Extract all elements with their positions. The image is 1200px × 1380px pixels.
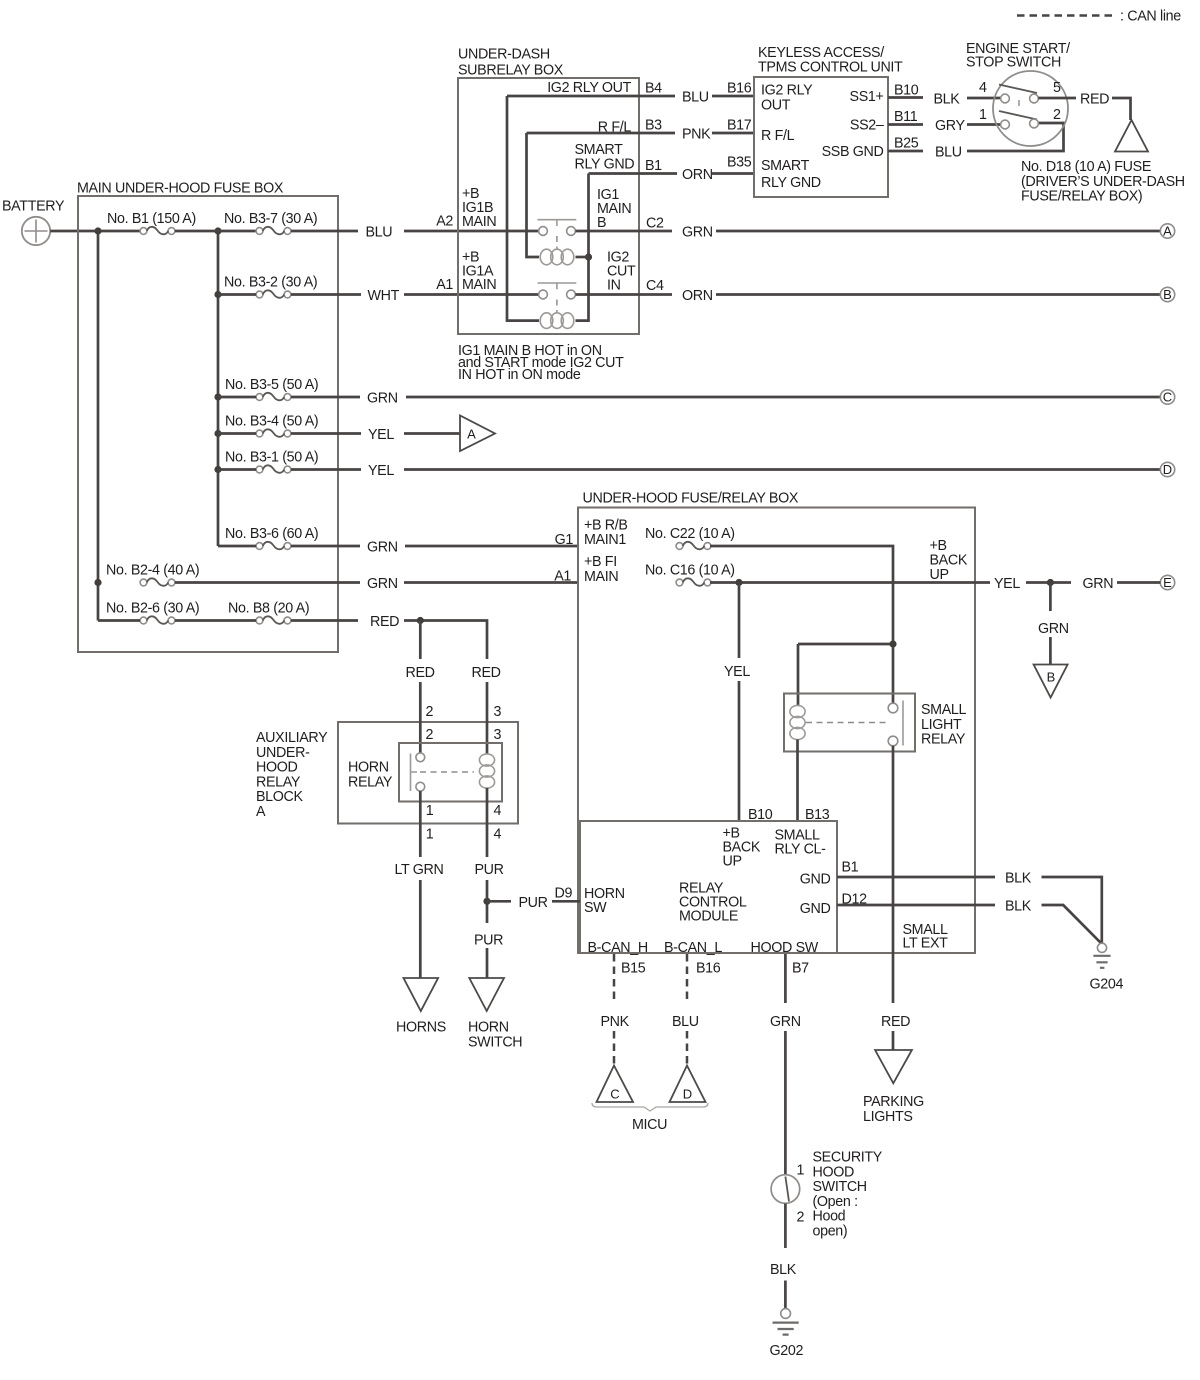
contact horn relay	[411, 753, 475, 791]
svg-text:SMALL: SMALL	[921, 702, 967, 718]
svg-text:RED: RED	[370, 614, 399, 630]
svg-text:ORN: ORN	[682, 288, 713, 304]
svg-text:IG2 RLY: IG2 RLY	[761, 83, 813, 99]
svg-text:FUSE/RELAY BOX): FUSE/RELAY BOX)	[1021, 189, 1142, 205]
svg-text:No. B8 (20 A): No. B8 (20 A)	[228, 601, 309, 617]
wire left bus	[97, 231, 100, 621]
wire BLU row A2	[291, 230, 539, 233]
svg-text:MAIN: MAIN	[584, 569, 618, 585]
svg-text:B: B	[1163, 287, 1172, 302]
wire YEL vertical to B10	[738, 583, 741, 822]
svg-text:RED: RED	[472, 665, 501, 681]
svg-text:PNK: PNK	[682, 127, 711, 143]
svg-text:No. B3-1 (50 A): No. B3-1 (50 A)	[225, 450, 318, 466]
svg-text:GRN: GRN	[682, 225, 713, 241]
svg-text:RED: RED	[406, 665, 435, 681]
svg-text:B13: B13	[805, 807, 830, 823]
svg-text:D: D	[1163, 462, 1172, 477]
svg-text:G204: G204	[1090, 977, 1124, 993]
svg-text:GRN: GRN	[770, 1014, 801, 1030]
svg-text:OUT: OUT	[761, 98, 791, 114]
connector A triangle	[460, 416, 495, 452]
svg-text:D: D	[683, 1087, 692, 1102]
wire SS1+ B10 BLK	[888, 83, 1001, 108]
relay HORN RELAY box	[348, 743, 502, 802]
fuse B3-7 30A	[224, 211, 317, 234]
svg-text:: CAN line: : CAN line	[1120, 9, 1181, 25]
svg-text:No. B3-2 (30 A): No. B3-2 (30 A)	[224, 275, 317, 291]
node horn relay feed junction	[417, 617, 424, 624]
svg-text:2: 2	[797, 1210, 805, 1226]
contact small light relay	[806, 701, 903, 746]
svg-text:BLU: BLU	[366, 225, 393, 241]
svg-text:GND: GND	[800, 901, 831, 917]
svg-text:B: B	[1047, 670, 1056, 685]
svg-text:IN: IN	[607, 278, 621, 294]
connector B triangle	[1034, 665, 1068, 698]
svg-text:1: 1	[979, 107, 987, 123]
wire GRN drop to connector B	[1049, 583, 1052, 665]
svg-text:B4: B4	[645, 81, 662, 97]
svg-text:PUR: PUR	[519, 895, 548, 911]
svg-text:1: 1	[426, 803, 434, 819]
svg-text:HOOD SW: HOOD SW	[751, 940, 819, 956]
MICU bracket	[592, 1103, 708, 1133]
svg-text:B15: B15	[621, 961, 646, 977]
svg-text:No. B3-6 (60 A): No. B3-6 (60 A)	[225, 526, 318, 542]
svg-text:TPMS CONTROL UNIT: TPMS CONTROL UNIT	[758, 60, 903, 76]
svg-text:No. C16 (10 A): No. C16 (10 A)	[645, 563, 735, 579]
UNDER-DASH SUBRELAY BOX	[458, 47, 639, 335]
fuse B3-6 60A	[225, 526, 318, 549]
svg-text:GRN: GRN	[367, 576, 398, 592]
ground G202	[770, 1309, 804, 1359]
svg-text:open): open)	[813, 1224, 848, 1240]
fuse B1 150A	[107, 211, 196, 234]
svg-text:A: A	[256, 804, 266, 820]
svg-text:GRN: GRN	[367, 540, 398, 556]
svg-text:SW: SW	[584, 900, 607, 916]
svg-text:BATTERY: BATTERY	[2, 199, 65, 215]
svg-text:A2: A2	[436, 214, 453, 230]
node relay branch junction	[889, 640, 896, 647]
wire WHT row A1	[218, 293, 539, 296]
svg-text:2: 2	[1053, 107, 1061, 123]
svg-text:No. B3-5 (50 A): No. B3-5 (50 A)	[225, 377, 318, 393]
svg-text:YEL: YEL	[368, 463, 394, 479]
svg-text:RLY GND: RLY GND	[575, 157, 635, 173]
svg-text:G202: G202	[770, 1343, 804, 1359]
svg-text:Hood: Hood	[813, 1209, 846, 1225]
svg-text:GND: GND	[800, 872, 831, 888]
svg-text:HORN: HORN	[348, 760, 389, 776]
svg-text:B17: B17	[727, 118, 752, 134]
svg-text:RELAY: RELAY	[256, 774, 301, 790]
svg-text:BLK: BLK	[1005, 871, 1032, 887]
svg-text:LT GRN: LT GRN	[395, 862, 444, 878]
connector D triangle (MICU)	[670, 1066, 706, 1103]
svg-text:WHT: WHT	[368, 288, 400, 304]
wire horn relay pin 1 LT GRN to HORNS	[395, 791, 444, 978]
wire C4 ORN to connector B	[576, 293, 1161, 296]
wire +B BACK UP out to connector E	[710, 581, 1160, 584]
wire battery to fuse box	[50, 230, 140, 233]
parking lights triangle	[863, 1050, 924, 1125]
node backup branch junction	[1047, 579, 1054, 586]
svg-text:RED: RED	[881, 1014, 910, 1030]
node B3-2 junction	[214, 291, 221, 298]
node B2-4 junction	[94, 579, 101, 586]
svg-text:B-CAN_H: B-CAN_H	[588, 940, 648, 956]
svg-text:YEL: YEL	[994, 576, 1020, 592]
svg-text:SWITCH: SWITCH	[813, 1179, 867, 1195]
coil small light relay	[790, 705, 805, 821]
wire HOOD SW B7 GRN	[770, 954, 809, 1175]
relay IG2 CUT IN contact	[538, 283, 577, 313]
svg-text:No. C22 (10 A): No. C22 (10 A)	[645, 526, 735, 542]
svg-text:AUXILIARY: AUXILIARY	[256, 730, 328, 746]
svg-text:RELAY: RELAY	[348, 775, 393, 791]
node battery bus junction	[94, 227, 101, 234]
svg-text:4: 4	[979, 80, 987, 96]
svg-text:B1: B1	[842, 860, 859, 876]
svg-text:+B FI: +B FI	[584, 554, 617, 570]
node B3-4 junction	[214, 430, 221, 437]
connector HORNS triangle	[396, 978, 446, 1036]
svg-text:BLU: BLU	[672, 1014, 699, 1030]
wire YEL row to connector A	[218, 432, 460, 435]
svg-text:ORN: ORN	[682, 167, 713, 183]
svg-text:B16: B16	[696, 961, 721, 977]
svg-text:MAIN UNDER-HOOD FUSE BOX: MAIN UNDER-HOOD FUSE BOX	[77, 181, 284, 197]
svg-text:RLY GND: RLY GND	[761, 175, 821, 191]
label SMALL LT EXT	[903, 922, 949, 952]
svg-text:YEL: YEL	[724, 664, 750, 680]
connector A circle	[1160, 224, 1174, 239]
fuse C22 10A	[645, 526, 735, 549]
label +B BACK UP (box)	[930, 538, 968, 583]
svg-text:SWITCH: SWITCH	[468, 1035, 522, 1051]
wire YEL row to connector D	[218, 468, 1160, 471]
CAN line legend	[1017, 9, 1181, 25]
coil horn relay	[479, 754, 494, 788]
svg-text:HORN: HORN	[468, 1020, 509, 1036]
wire GND D12 BLK to G204	[837, 892, 1101, 943]
svg-text:C: C	[1163, 390, 1172, 405]
svg-text:B16: B16	[727, 81, 752, 97]
KEYLESS ACCESS / TPMS CONTROL UNIT	[754, 45, 903, 197]
svg-text:BLK: BLK	[1005, 899, 1032, 915]
wire relay coil feed	[798, 644, 893, 706]
svg-text:C: C	[610, 1087, 619, 1102]
svg-text:MAIN1: MAIN1	[584, 532, 626, 548]
fuse C16 10A	[645, 563, 735, 586]
node B3-1 junction	[214, 466, 221, 473]
svg-text:SMART: SMART	[761, 158, 810, 174]
wire RED row to horn relays	[98, 621, 487, 660]
svg-text:B1: B1	[645, 158, 662, 174]
svg-text:RELAY: RELAY	[921, 732, 966, 748]
svg-text:LT EXT: LT EXT	[903, 936, 949, 952]
svg-text:B7: B7	[792, 961, 809, 977]
note IG1 hot modes	[458, 343, 624, 383]
wire R F/L B3	[527, 118, 755, 143]
svg-text:5: 5	[1053, 80, 1061, 96]
svg-text:No. B2-4 (40 A): No. B2-4 (40 A)	[106, 563, 199, 579]
switch contact 1-2	[979, 107, 1061, 129]
svg-text:UNDER-HOOD FUSE/RELAY BOX: UNDER-HOOD FUSE/RELAY BOX	[583, 491, 799, 507]
svg-text:UNDER-: UNDER-	[256, 745, 310, 761]
svg-text:4: 4	[494, 803, 502, 819]
svg-text:B-CAN_L: B-CAN_L	[664, 940, 722, 956]
svg-text:GRN: GRN	[367, 391, 398, 407]
connector B circle	[1160, 287, 1174, 302]
wire C22 to small light relay	[710, 546, 893, 704]
relay IG1 MAIN B contact	[538, 220, 577, 249]
coil IG2 relay	[540, 313, 574, 329]
ENGINE START/STOP SWITCH	[966, 41, 1070, 146]
label No. D18 fuse	[1021, 159, 1185, 205]
svg-text:A: A	[467, 427, 476, 442]
wire IG1 relay feed vertical	[527, 133, 540, 257]
label +B R/B MAIN1	[584, 518, 628, 549]
svg-text:MODULE: MODULE	[679, 909, 738, 925]
switch SECURITY HOOD SWITCH	[771, 1150, 883, 1240]
svg-text:B3: B3	[645, 118, 662, 134]
wire SMART RLY GND B1	[575, 142, 755, 183]
svg-text:GRY: GRY	[935, 118, 965, 134]
MAIN UNDER-HOOD FUSE BOX	[77, 181, 338, 653]
wire GRN row to G1	[218, 545, 578, 548]
fuse B3-1 50A	[225, 450, 318, 473]
svg-text:2: 2	[426, 727, 434, 743]
svg-text:3: 3	[494, 704, 502, 720]
svg-text:IN HOT in ON mode: IN HOT in ON mode	[458, 367, 581, 383]
svg-text:GRN: GRN	[1083, 576, 1114, 592]
svg-text:GRN: GRN	[1038, 621, 1069, 637]
svg-text:A1: A1	[436, 277, 453, 293]
svg-text:SS1+: SS1+	[850, 89, 884, 105]
svg-text:HOOD: HOOD	[813, 1164, 855, 1180]
svg-text:SSB GND: SSB GND	[822, 144, 884, 160]
svg-text:HORNS: HORNS	[396, 1020, 446, 1036]
svg-text:BLK: BLK	[934, 92, 961, 108]
node coil ground junction	[585, 253, 592, 260]
svg-text:3: 3	[494, 727, 502, 743]
UNDER-HOOD FUSE/RELAY BOX	[578, 491, 975, 954]
wire GRN row to connector C	[218, 396, 1160, 399]
svg-text:R F/L: R F/L	[598, 120, 632, 136]
label IG1 MAIN B / C2	[597, 187, 664, 232]
svg-text:BLK: BLK	[770, 1262, 797, 1278]
svg-text:PNK: PNK	[601, 1014, 630, 1030]
svg-text:R F/L: R F/L	[761, 128, 795, 144]
label +B FI MAIN	[584, 554, 618, 585]
svg-text:LIGHTS: LIGHTS	[863, 1109, 913, 1125]
connector C triangle (MICU)	[597, 1066, 634, 1103]
svg-text:C4: C4	[646, 278, 664, 294]
svg-text:IG2 RLY OUT: IG2 RLY OUT	[547, 80, 631, 96]
wire RED riser pin 3	[472, 665, 502, 754]
svg-text:(Open :: (Open :	[813, 1194, 858, 1210]
wire horn relay pin 4 PUR to horn switch	[474, 788, 504, 978]
relay SMALL LIGHT RELAY box	[784, 694, 967, 752]
connector E circle	[1160, 575, 1174, 590]
svg-text:B: B	[597, 215, 606, 231]
svg-text:B10: B10	[748, 807, 773, 823]
svg-text:YEL: YEL	[368, 427, 394, 443]
connector D circle	[1160, 462, 1174, 477]
svg-text:STOP SWITCH: STOP SWITCH	[966, 55, 1061, 71]
svg-text:HOOD: HOOD	[256, 760, 298, 776]
wire SS2- B11 GRY	[888, 109, 1001, 134]
svg-text:1: 1	[797, 1163, 805, 1179]
fuse B3-4 50A	[225, 414, 318, 437]
fuse B2-6 30A	[106, 601, 199, 624]
coil IG1 relay	[540, 249, 588, 265]
svg-text:B11: B11	[894, 109, 918, 125]
svg-text:No. B2-6 (30 A): No. B2-6 (30 A)	[106, 601, 199, 617]
connector C circle	[1160, 390, 1174, 405]
svg-text:B10: B10	[894, 83, 919, 99]
svg-text:SS2–: SS2–	[850, 118, 884, 134]
wire B-CAN_L BLU (CAN)	[672, 954, 721, 1065]
label +B IG1A MAIN	[462, 250, 496, 294]
wire B1 to B3-7	[175, 230, 256, 233]
battery B+ terminal	[2, 199, 65, 246]
wire SSB GND B25 BLU	[888, 123, 1064, 161]
svg-text:B35: B35	[727, 155, 752, 171]
wire IG2 RLY OUT B4	[507, 80, 754, 106]
svg-text:PUR: PUR	[475, 862, 504, 878]
svg-text:UP: UP	[930, 567, 949, 583]
svg-text:PARKING: PARKING	[863, 1094, 924, 1110]
svg-text:No. B3-7 (30 A): No. B3-7 (30 A)	[224, 211, 317, 227]
svg-text:PUR: PUR	[474, 933, 503, 949]
svg-text:BLU: BLU	[682, 90, 709, 106]
svg-text:RED: RED	[1080, 92, 1109, 108]
wire C2 GRN to connector A	[576, 230, 1161, 233]
svg-text:A1: A1	[554, 569, 571, 585]
svg-text:UP: UP	[723, 854, 742, 870]
svg-text:G1: G1	[555, 532, 574, 548]
wire PUR branch to D9	[487, 886, 580, 912]
svg-text:2: 2	[426, 704, 434, 720]
wire B-CAN_H PNK (CAN)	[601, 954, 646, 1065]
svg-text:No. B3-4 (50 A): No. B3-4 (50 A)	[225, 414, 318, 430]
svg-text:MICU: MICU	[632, 1117, 667, 1133]
svg-text:No. B1 (150 A): No. B1 (150 A)	[107, 211, 196, 227]
wire hood switch BLK to G202	[770, 1204, 797, 1309]
node C16 backup junction	[735, 579, 742, 586]
label IG2 CUT IN / C4	[607, 250, 664, 295]
svg-text:A: A	[1163, 224, 1172, 239]
svg-text:B25: B25	[894, 136, 919, 152]
svg-text:D9: D9	[555, 886, 573, 902]
connector HORN SWITCH triangle	[468, 978, 522, 1051]
wire GRN row to A1	[175, 581, 578, 584]
wire pin5 RED to D18 fuse	[1038, 92, 1130, 121]
svg-text:UNDER-DASH: UNDER-DASH	[458, 47, 550, 63]
RELAY CONTROL MODULE box	[580, 807, 837, 956]
svg-text:SECURITY: SECURITY	[813, 1150, 883, 1166]
ground G204	[1090, 943, 1124, 992]
label +B IG1B MAIN	[462, 186, 496, 230]
fuse B3-5 50A	[225, 377, 318, 400]
svg-text:BLOCK: BLOCK	[256, 789, 304, 805]
fuse B2-4 40A	[106, 563, 199, 586]
svg-text:MAIN: MAIN	[462, 277, 496, 293]
svg-text:E: E	[1163, 575, 1172, 590]
svg-text:C2: C2	[646, 216, 664, 232]
svg-text:4: 4	[494, 827, 502, 843]
switch contact 4-5	[979, 80, 1061, 106]
AUXILIARY UNDER-HOOD RELAY BLOCK A	[256, 722, 518, 824]
wire smart relay ground vertical	[576, 174, 589, 321]
node B3-5 junction	[214, 393, 221, 400]
svg-text:SUBRELAY BOX: SUBRELAY BOX	[458, 63, 564, 79]
svg-text:RLY CL-: RLY CL-	[775, 842, 827, 858]
wire IG2 relay feed vertical	[507, 96, 539, 321]
svg-text:BLU: BLU	[935, 145, 962, 161]
wire center bus	[217, 231, 220, 546]
fuse B8 20A	[228, 601, 309, 624]
svg-text:MAIN: MAIN	[462, 214, 496, 230]
node horn switch branch junction	[483, 898, 490, 905]
wire small light output to parking lights	[892, 746, 895, 1050]
node B3-7 junction	[214, 227, 221, 234]
wire GND B1 BLK to G204	[837, 860, 1102, 944]
svg-text:No. D18 (10 A) FUSE: No. D18 (10 A) FUSE	[1021, 159, 1151, 175]
fuse D18 triangle	[1115, 120, 1148, 152]
wire RED riser pin 2	[406, 621, 435, 754]
svg-text:1: 1	[426, 827, 434, 843]
fuse B3-2 30A	[224, 275, 317, 298]
